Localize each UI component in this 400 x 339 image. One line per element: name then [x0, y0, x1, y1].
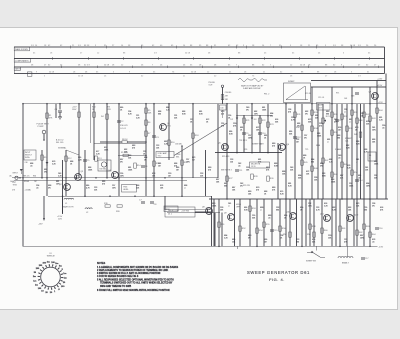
band A label box [14, 47, 29, 51]
test point TP1 [42, 130, 46, 134]
svg-text:1m: 1m [35, 285, 38, 287]
svg-text:10%: 10% [248, 137, 252, 139]
svg-text:EARTH: EARTH [15, 68, 21, 71]
diode D4 [20, 169, 23, 172]
junction input rail [75, 177, 77, 179]
wire B306 [305, 199, 307, 246]
resistor R14 [134, 163, 137, 168]
resistor R69 [221, 95, 224, 100]
svg-text:DL 1: DL 1 [168, 214, 172, 216]
svg-text:.1: .1 [344, 111, 346, 113]
resistor R5 [145, 108, 148, 113]
arrow -15V [43, 218, 45, 221]
svg-text:C30 680: C30 680 [225, 92, 231, 94]
graph box [284, 83, 311, 103]
wire mid step [167, 212, 220, 214]
resistor R47 [322, 158, 325, 163]
wire V302 [301, 104, 303, 199]
wire V312 [311, 87, 313, 199]
svg-text:.01: .01 [36, 187, 39, 189]
wire V42 [41, 150, 43, 178]
resistor R61 [339, 226, 342, 231]
resistor R17 [181, 160, 184, 165]
resistor R9 [123, 154, 128, 156]
wire B234 [234, 199, 236, 246]
svg-text:680: 680 [337, 137, 340, 139]
transistor Q12 [347, 215, 354, 222]
wire left drop [22, 104, 24, 247]
rail bottom -15V [23, 245, 378, 247]
svg-text:10%: 10% [366, 185, 370, 187]
resistor R20 [117, 205, 122, 207]
wire B286 [285, 199, 287, 246]
wire V222b [221, 213, 223, 247]
capacitor C6 [141, 165, 145, 167]
wire V47 [46, 104, 48, 197]
wire V146 [145, 104, 147, 197]
input select box [24, 150, 36, 160]
capacitor C14 [355, 179, 359, 181]
svg-text:R10 470: R10 470 [120, 125, 128, 127]
wire pulse down [222, 87, 224, 103]
junction rail 196 [62, 195, 64, 197]
svg-text:.01: .01 [30, 165, 33, 167]
diode D3 [251, 117, 253, 123]
svg-text:.1: .1 [260, 209, 262, 211]
wire V154 [153, 104, 155, 197]
resistor R54 [256, 228, 259, 233]
svg-text:470: 470 [208, 169, 211, 171]
wire V56 [55, 104, 57, 118]
wire diagonal trig [174, 123, 227, 156]
svg-text:680: 680 [224, 185, 227, 187]
resistor R15 [153, 161, 156, 166]
svg-text:R8 1K: R8 1K [122, 139, 128, 141]
resistor R33 [311, 110, 314, 115]
capacitor C11 [235, 169, 239, 171]
resistor R41 [359, 132, 362, 137]
resistor R22 [259, 118, 262, 123]
svg-text:R66: R66 [33, 175, 36, 177]
resistor R3 [93, 112, 96, 117]
transistor Q1 [160, 124, 167, 131]
svg-text:TP5: TP5 [305, 149, 308, 151]
svg-text:C19 .01: C19 .01 [318, 97, 324, 99]
wire B336 [335, 199, 337, 246]
svg-text:1m: 1m [33, 281, 36, 283]
resistor R7 [145, 131, 148, 136]
transistor Q9 [228, 214, 235, 221]
rail +15V upper [311, 86, 386, 88]
wire B240 [239, 199, 241, 246]
resistor R38 [346, 126, 349, 131]
svg-text:SEL: SEL [176, 156, 179, 158]
resistor R45 [301, 160, 304, 165]
svg-text:BEAM X: BEAM X [342, 262, 350, 265]
capacitor C17 [361, 257, 365, 259]
ground below C1 [58, 116, 62, 118]
transistor Q8 [206, 208, 213, 215]
notes block [97, 262, 179, 292]
svg-text:1m: 1m [63, 273, 66, 275]
wire V295 [294, 104, 296, 199]
wire V244 [243, 116, 245, 153]
svg-text:10%: 10% [120, 175, 124, 177]
capacitor C15 [270, 229, 274, 231]
wire B280 [279, 199, 281, 246]
wire V357 [356, 104, 358, 247]
wire R8 feed [100, 141, 122, 143]
capacitor C1 [58, 110, 62, 112]
rail input lower [14, 179, 187, 181]
wire B364b [363, 199, 365, 246]
transistor Q11 [324, 215, 331, 222]
transistor Q6 [279, 144, 286, 151]
svg-text:C18: C18 [351, 96, 354, 98]
wire R8 out [127, 141, 146, 143]
wire B272 [271, 199, 273, 246]
wire S2 drop [315, 246, 317, 250]
svg-text:19 20: 19 20 [251, 166, 256, 168]
junction bottom rail [218, 246, 220, 248]
transistor Q2 [64, 184, 71, 191]
capacitor C7 [141, 201, 145, 203]
wire V119 [118, 104, 120, 197]
svg-text:SAWTOOTH: SAWTOOTH [63, 206, 74, 209]
resistor R51 [218, 222, 221, 227]
resistor R27 [226, 176, 229, 181]
band A left edge [13, 47, 15, 59]
resistor R59 [313, 232, 316, 237]
capacitor C10 [258, 132, 262, 134]
svg-text:120: 120 [230, 161, 233, 163]
resistor R43 [369, 116, 372, 121]
svg-text:.01: .01 [372, 241, 375, 243]
title text [247, 270, 310, 275]
svg-text:FIG. 4.: FIG. 4. [269, 277, 285, 282]
resistor R8 [122, 141, 127, 143]
rail step [165, 209, 212, 211]
wire V377 [376, 81, 378, 200]
capacitor C18 [355, 92, 359, 94]
pot box VR2 [98, 160, 111, 171]
svg-text:NOTES: NOTES [97, 262, 106, 265]
svg-text:C30: C30 [220, 108, 223, 110]
resistor R44 [376, 108, 379, 113]
capacitor C8 [150, 201, 154, 203]
wire V79 [78, 104, 80, 178]
svg-text:.01: .01 [238, 165, 241, 167]
component value labels [30, 107, 385, 243]
wire V337 [336, 104, 338, 199]
svg-text:POINT: POINT [38, 126, 45, 128]
svg-text:SWEEP SW: SWEEP SW [306, 261, 316, 263]
wire V169 [168, 104, 170, 160]
svg-text:2 REPLACEMENTS TO MANUFACTURE: 2 REPLACEMENTS TO MANUFACTURER OF TERMIN… [97, 269, 168, 272]
band A top wire [14, 46, 384, 48]
resistor R4 [106, 114, 109, 119]
waveform squiggle [238, 79, 267, 82]
band pin numbers [31, 45, 377, 78]
svg-text:SWEEP GATE: SWEEP GATE [252, 143, 265, 146]
svg-text:.01: .01 [338, 157, 341, 159]
svg-text:NOMINAL: NOMINAL [58, 147, 66, 150]
wire V62 [62, 160, 64, 214]
wire B302b [301, 199, 303, 246]
wire V352 [351, 87, 353, 199]
svg-text:470: 470 [256, 189, 259, 191]
wire V370 [369, 87, 371, 246]
svg-text:+15V: +15V [377, 85, 383, 87]
junction mid rail [236, 115, 238, 117]
svg-text:S1: S1 [49, 253, 51, 255]
svg-text:5%: 5% [320, 165, 323, 167]
wire V237 [236, 104, 238, 153]
wire y143 [94, 142, 146, 144]
wire B219 [218, 199, 220, 246]
wire V360 [360, 104, 362, 199]
svg-text:.01: .01 [358, 177, 361, 179]
resistor R60 [321, 228, 324, 233]
resistor R39 [351, 110, 354, 115]
resistor R50 [351, 170, 354, 175]
svg-text:680: 680 [311, 161, 314, 163]
resistor R11 [41, 155, 44, 160]
junction rail 178 [22, 177, 24, 179]
resistor R6 [145, 120, 148, 125]
wire V342 [341, 104, 343, 199]
svg-text:.1: .1 [184, 187, 186, 189]
svg-text:COMPONENTS: COMPONENTS [15, 60, 29, 62]
resistor R63 [363, 224, 366, 229]
wire bias [118, 154, 146, 156]
svg-text:TRIG: TRIG [13, 184, 18, 186]
rail mid box [237, 115, 272, 117]
wire L3 drop [346, 246, 348, 256]
band B bottom wire [14, 66, 384, 68]
wire B214 [213, 199, 215, 246]
svg-text:INPUT: INPUT [13, 173, 19, 175]
svg-text:5%: 5% [372, 205, 375, 207]
wire B340 [339, 199, 341, 246]
wire V268 [267, 104, 269, 153]
svg-text:54 58: 54 58 [185, 53, 191, 55]
wire V260 [259, 116, 261, 153]
wire V215b [214, 213, 216, 247]
resistor R18 [192, 133, 195, 138]
svg-text:5%: 5% [305, 113, 308, 115]
svg-text:TRIG: TRIG [123, 187, 128, 189]
svg-text:54 58: 54 58 [49, 71, 55, 73]
svg-text:5%: 5% [304, 137, 307, 139]
svg-text:.1: .1 [349, 121, 351, 123]
svg-text:10%: 10% [254, 113, 258, 115]
wire V364 [363, 104, 365, 199]
wire V182 [181, 146, 183, 196]
svg-text:TERMINALS SWITCHED OUT TO ALL: TERMINALS SWITCHED OUT TO ALL UNITS WHEN… [100, 282, 173, 285]
delay line box [165, 207, 195, 217]
svg-text:CAL: CAL [345, 139, 349, 142]
resistor R32 [301, 125, 304, 130]
wire B322 [321, 199, 323, 246]
svg-text:54 58: 54 58 [78, 76, 84, 78]
wire B314 [313, 199, 315, 246]
svg-text:SWEEP: SWEEP [288, 81, 295, 83]
svg-text:+24V: +24V [377, 79, 383, 81]
svg-text:5%: 5% [248, 237, 251, 239]
resistor R31 [294, 112, 297, 117]
svg-text:TP4 1/2 D: TP4 1/2 D [239, 140, 248, 142]
wire V205 [205, 150, 207, 196]
svg-text:470: 470 [288, 111, 291, 113]
resistor R53 [249, 206, 252, 211]
svg-text:10%: 10% [112, 187, 116, 189]
svg-text:R19 SEL: R19 SEL [100, 169, 107, 171]
aux box [317, 103, 331, 111]
wire V318 [317, 104, 319, 199]
svg-text:X GAIN: X GAIN [335, 148, 342, 151]
svg-text:54 58: 54 58 [104, 64, 110, 66]
capacitor C12 [293, 136, 297, 138]
box bottom mid [164, 206, 178, 212]
wire B310 [309, 199, 311, 246]
svg-text:5%: 5% [246, 109, 249, 111]
capacitor C5 [83, 159, 87, 161]
svg-text:SWG AND TIME/CM TO SWB: SWG AND TIME/CM TO SWB [100, 285, 131, 288]
svg-text:3 SWITCH SHOWN IN FULLY ANTI: 3 SWITCH SHOWN IN FULLY ANTI CLOCKWISE P… [97, 272, 161, 275]
wire +15V drop [62, 196, 64, 213]
svg-text:LEVEL: LEVEL [123, 189, 129, 191]
graph ramp [286, 86, 305, 100]
band B right edge [384, 59, 386, 67]
band C sub box [27, 72, 32, 76]
wire V278 [277, 143, 279, 199]
wire V332 [331, 87, 333, 246]
svg-text:TIME/CM: TIME/CM [47, 256, 55, 258]
band B top wire [14, 58, 384, 60]
wire V323 [322, 104, 324, 199]
switch S2 [307, 251, 312, 253]
svg-text:.01: .01 [268, 217, 271, 219]
svg-text:SEL 10%: SEL 10% [56, 142, 64, 144]
title fig [269, 277, 285, 282]
wire V85 [84, 150, 86, 196]
wire B264 [263, 199, 265, 246]
resistor R36 [331, 130, 334, 135]
resistor R58 [309, 224, 312, 229]
resistor R23 [267, 122, 270, 127]
svg-text:470: 470 [132, 147, 135, 149]
svg-text:10%: 10% [372, 129, 376, 131]
wire V165 [164, 196, 166, 210]
wire V347 [346, 104, 348, 247]
resistor R21 [243, 118, 246, 123]
resistor R2 [78, 112, 81, 117]
wire pointer [66, 150, 79, 155]
svg-text:.01: .01 [382, 127, 385, 129]
svg-text:C36 680: C36 680 [175, 143, 182, 145]
svg-text:470: 470 [221, 125, 224, 127]
svg-text:R70 1K: R70 1K [305, 93, 312, 95]
svg-text:10%: 10% [186, 161, 190, 163]
resistor R13 [95, 156, 98, 161]
transistor Q4 [112, 172, 119, 179]
svg-text:-15V: -15V [379, 246, 384, 248]
wire -15V drop [43, 196, 45, 218]
svg-text:5 ALL RESPONSES SELECTED OPTI: 5 ALL RESPONSES SELECTED OPTIONAL WAVEFO… [97, 279, 174, 282]
svg-text:WAVE FORMS: WAVE FORMS [15, 48, 28, 51]
gate label box [250, 162, 270, 168]
wire B354 [353, 199, 355, 246]
svg-text:5%: 5% [120, 161, 123, 163]
band A bottom wire [14, 58, 384, 60]
junction gate rail [236, 152, 238, 154]
wire title drop [236, 246, 238, 249]
wire delay feed [195, 211, 212, 213]
svg-text:.1: .1 [356, 161, 358, 163]
svg-text:+15V: +15V [378, 102, 383, 104]
resistor R28 [251, 174, 254, 179]
transistor Q5 [222, 144, 229, 151]
wire V227 [226, 104, 228, 199]
svg-text:1 A GENERAL COMPONENTS NOT SH: 1 A GENERAL COMPONENTS NOT SHOWN ON PC B… [97, 266, 179, 269]
resistor R49 [341, 162, 344, 167]
rail HT main [23, 103, 386, 105]
rail +24V top [311, 80, 386, 82]
capacitor C16 [375, 227, 379, 229]
wire V193 [192, 104, 194, 178]
svg-text:10%: 10% [360, 237, 364, 239]
svg-text:R29 22K: R29 22K [243, 185, 251, 187]
band C bottom wire [14, 73, 384, 75]
resistor R64 [369, 232, 372, 237]
component box C30 [220, 105, 227, 110]
resistor R62 [356, 230, 359, 235]
wire V66 [65, 150, 67, 196]
svg-text:10%: 10% [58, 219, 62, 221]
wire V286 [285, 104, 287, 199]
transistor Q7 [372, 93, 379, 100]
band A right edge [384, 47, 386, 59]
svg-text:R26: R26 [244, 149, 247, 151]
svg-text:R71: R71 [336, 93, 339, 95]
svg-text:C4 .01: C4 .01 [120, 128, 127, 130]
resistor R56 [279, 226, 282, 231]
wire V211 [211, 196, 213, 246]
svg-text:-15V: -15V [38, 224, 43, 226]
svg-text:TS 2: TS 2 [158, 156, 162, 158]
svg-text:470: 470 [221, 113, 224, 115]
trigger level box [122, 185, 137, 193]
svg-text:.1: .1 [327, 141, 329, 143]
svg-text:4 FOR 50 SERIES BOARDS SEE FI: 4 FOR 50 SERIES BOARDS SEE FIG 6 [97, 275, 139, 278]
svg-text:54 58: 54 58 [191, 71, 197, 73]
inductor L1 [64, 198, 74, 199]
resistor R37 [341, 114, 344, 119]
potentiometer RV1 [322, 118, 325, 123]
rail left lower [48, 195, 212, 197]
transistor Q10 [290, 213, 297, 220]
svg-text:6 FROM FULL SWITCH S10/2 SHOW: 6 FROM FULL SWITCH S10/2 SHOWN ANTICLOCK… [97, 289, 170, 292]
svg-text:X AMP AND DISPLAY: X AMP AND DISPLAY [243, 87, 261, 90]
rail right lower [209, 198, 388, 200]
wire B257 [256, 199, 258, 246]
resistor R35 [331, 112, 334, 117]
svg-text:150V: 150V [72, 109, 77, 111]
svg-text:680: 680 [364, 209, 367, 211]
wire V107 [106, 104, 108, 178]
svg-text:10%: 10% [308, 205, 312, 207]
